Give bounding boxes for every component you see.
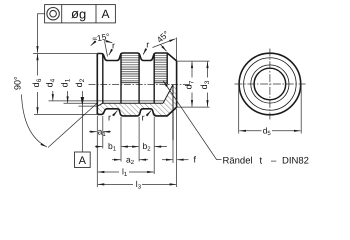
svg-text:45°: 45° [155, 29, 171, 45]
svg-text:r: r [108, 112, 111, 122]
svg-text:f: f [194, 155, 197, 165]
svg-text:d5: d5 [263, 126, 272, 138]
svg-text:a2: a2 [126, 154, 135, 166]
svg-text:r: r [112, 41, 115, 51]
svg-text:d2: d2 [74, 78, 86, 87]
svg-text:d1: d1 [59, 78, 71, 87]
svg-text:l3: l3 [136, 179, 142, 191]
svg-text:l1: l1 [122, 167, 128, 179]
svg-text:g: g [79, 7, 86, 22]
svg-text:90°: 90° [13, 76, 23, 90]
svg-text:d4: d4 [45, 78, 57, 87]
svg-text:ø: ø [71, 6, 79, 21]
svg-text:A: A [79, 155, 87, 167]
svg-text:r: r [146, 40, 149, 50]
svg-text:r: r [142, 112, 145, 122]
svg-text:Rändelt–DIN82: Rändelt–DIN82 [223, 155, 309, 166]
svg-text:d6: d6 [31, 78, 43, 87]
svg-text:b1: b1 [108, 141, 117, 153]
svg-text:A: A [102, 7, 110, 21]
svg-text:d7: d7 [184, 80, 196, 89]
svg-text:d3: d3 [199, 80, 211, 89]
svg-text:b2: b2 [143, 141, 152, 153]
svg-text:a1: a1 [98, 126, 107, 138]
